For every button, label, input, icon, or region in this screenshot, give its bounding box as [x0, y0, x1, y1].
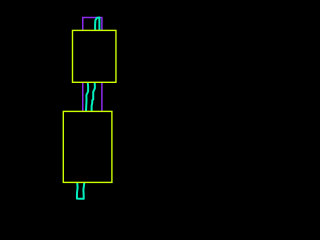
wire net N1 (purple loop)	[83, 18, 102, 140]
component U2 (bottom box)	[63, 111, 112, 182]
wire net N2 (cyan hairpin)	[77, 18, 100, 199]
component U1 (top box)	[73, 30, 116, 82]
